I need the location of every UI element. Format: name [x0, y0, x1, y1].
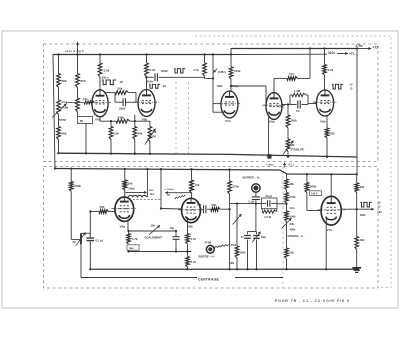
potentiometer P2	[71, 238, 80, 240]
svg-text:4.7k: 4.7k	[328, 68, 334, 72]
svg-text:CENTRAGE: CENTRAGE	[198, 278, 219, 282]
svg-text:1.2M: 1.2M	[294, 89, 301, 93]
resistor R3 820	[77, 55, 79, 74]
box thermistor	[127, 245, 139, 250]
svg-text:68k: 68k	[62, 79, 67, 83]
svg-text:V9a: V9a	[269, 120, 275, 124]
svg-text:T8βC: T8βC	[129, 248, 135, 250]
svg-text:400k: 400k	[290, 228, 296, 232]
tube V7a triode	[221, 91, 238, 118]
arrow vers M1	[125, 191, 146, 193]
resistor squiggle H2	[175, 195, 186, 199]
svg-text:68k: 68k	[62, 132, 67, 136]
svg-text:(C4B1): (C4B1)	[218, 71, 226, 74]
resistor chain PSU 275k	[286, 190, 288, 193]
svg-text:100 V: 100 V	[311, 192, 318, 195]
svg-text:20k: 20k	[290, 222, 295, 226]
svg-text:310v: 310v	[328, 51, 335, 55]
arrow +T1	[337, 53, 348, 55]
resistor R8 2.7k anode load V6b	[146, 55, 148, 64]
svg-text:V9b: V9b	[320, 120, 326, 124]
wire V9a cathode to ground blob	[268, 115, 270, 156]
svg-text:1.5k: 1.5k	[83, 97, 89, 101]
resistor R19 56k	[134, 121, 136, 126]
svg-text:200v: 200v	[147, 80, 154, 84]
wire input node	[230, 203, 262, 205]
svg-text:56k: 56k	[138, 132, 143, 136]
ground symbol	[352, 267, 361, 269]
resistor R1 68k	[58, 55, 60, 74]
resistor R5 3.5k anode load V6a	[99, 55, 101, 64]
wire HT bus lower	[55, 169, 357, 175]
resistor R27 500k	[236, 204, 238, 246]
wire ground bus lower	[91, 268, 356, 270]
capacitor C3	[290, 104, 297, 106]
connector ENTREE	[252, 184, 260, 192]
svg-text:39k: 39k	[360, 185, 365, 189]
outer dashed margin line	[195, 36, 391, 288]
svg-text:(10w): (10w)	[129, 187, 135, 190]
wire HT bus jog	[230, 49, 232, 55]
dashed link line	[133, 199, 162, 201]
resistor R22 10k anode V8a	[124, 169, 126, 180]
resistor R24 4.7k cathode	[127, 230, 129, 232]
tube V8b output	[182, 198, 201, 222]
capacitor C5 25u and resistor 560 on V8b	[200, 208, 202, 210]
svg-text:SORTIE - H -: SORTIE - H -	[198, 255, 215, 259]
svg-text:4,7 M: 4,7 M	[264, 215, 272, 219]
wire choke to rail	[146, 196, 149, 198]
resistor R31 39k lower right rail	[355, 237, 359, 250]
potentiometer 20k vitesse	[282, 218, 292, 229]
wire grid V6a from pot	[66, 102, 84, 104]
svg-text:820: 820	[81, 79, 86, 83]
tube V6b triode	[138, 90, 155, 117]
svg-text:80 ~: 80 ~	[80, 119, 86, 123]
node ground bus junctions lower	[89, 268, 91, 270]
svg-text:43µ: 43µ	[170, 226, 175, 230]
svg-text:100k: 100k	[231, 244, 237, 247]
resistor R25 2.7k	[187, 252, 189, 257]
resistor R26 100k output	[214, 244, 229, 247]
svg-text:0.1 µf: 0.1 µf	[96, 239, 103, 243]
resistor chain PSU 39k	[286, 174, 288, 179]
dashed partition lower box	[282, 167, 284, 289]
wire to PSU rail	[277, 203, 287, 205]
svg-text:a 3 030w: a 3 030w	[165, 189, 174, 191]
box 100V	[310, 191, 322, 196]
ground tie point	[267, 154, 271, 158]
tube V8a output	[115, 197, 134, 221]
resistor R18 10k	[110, 121, 112, 126]
wire cathode V7b	[325, 218, 327, 270]
svg-text:180v: 180v	[360, 213, 366, 217]
node coupling junction	[145, 76, 147, 78]
svg-text:2.7k: 2.7k	[191, 260, 197, 264]
svg-text:100k: 100k	[217, 84, 223, 88]
resistor R11 100k anode load V7a	[230, 55, 232, 67]
potentiometer P6 1M	[149, 121, 151, 126]
svg-text:1&2: 1&2	[377, 211, 382, 214]
tube V7b	[321, 196, 341, 225]
wire coupling V7a anode to V9a grid	[230, 85, 232, 87]
svg-text:C3: C3	[296, 109, 300, 113]
svg-text:3.5k: 3.5k	[104, 69, 110, 73]
svg-text:540k: 540k	[118, 115, 125, 119]
tube V9a triode	[266, 93, 282, 120]
svg-text:10k: 10k	[195, 183, 200, 187]
svg-text:560k: 560k	[310, 185, 317, 189]
svg-text:275k: 275k	[290, 195, 296, 199]
wire left rail	[53, 55, 55, 169]
wire grid rail V8b	[160, 169, 162, 208]
resistor R29 560k grid V7b	[306, 174, 308, 182]
svg-text:vers A fig 5: vers A fig 5	[65, 49, 84, 53]
svg-text:STABILITE: STABILITE	[291, 148, 305, 152]
resistor R12 100	[274, 77, 287, 79]
svg-text:100: 100	[289, 72, 294, 76]
svg-text:P6: P6	[153, 135, 157, 139]
svg-text:500k: 500k	[240, 250, 247, 254]
svg-text:10k: 10k	[128, 182, 133, 186]
tube V9b triode	[316, 90, 333, 116]
wire grid V7b	[306, 193, 308, 211]
svg-text:10Ω: 10Ω	[230, 262, 235, 265]
resistor R23 10k anode V8b	[191, 169, 193, 180]
resistor R30 39k upper right rail	[356, 174, 358, 183]
wire C4B1 feed	[212, 55, 214, 113]
resistor R20 560k input rail	[70, 169, 72, 182]
wire anode V7b	[330, 174, 332, 196]
svg-text:10k: 10k	[114, 132, 119, 136]
node lower bus junctions	[70, 167, 72, 169]
potentiometer P1 100k	[58, 88, 60, 101]
svg-text:POUR TR , C1 , C2 VOIR FIG 5: POUR TR , C1 , C2 VOIR FIG 5	[275, 299, 350, 303]
arrow vers A	[77, 42, 79, 55]
svg-text:270k: 270k	[233, 185, 240, 189]
capacitor C9 47	[255, 204, 257, 232]
svg-text:100k: 100k	[290, 215, 296, 219]
svg-text:1M: 1M	[153, 130, 158, 134]
resistor R16 180 cathode V9b	[326, 116, 328, 128]
wire grid feed V7a	[205, 78, 214, 80]
svg-text:+T2: +T2	[373, 45, 379, 49]
capacitor C7 input	[255, 192, 257, 196]
capacitor C4 0.1uF	[89, 212, 91, 238]
svg-text:560: 560	[212, 203, 217, 207]
svg-text:V7a: V7a	[327, 228, 333, 232]
svg-text:2.7k: 2.7k	[150, 68, 156, 72]
inductor L1 screen choke	[128, 195, 146, 196]
svg-text:10k: 10k	[151, 223, 156, 227]
tube V6a triode	[92, 90, 108, 117]
wire V7b output	[341, 208, 374, 210]
svg-text:100pF: 100pF	[161, 69, 169, 73]
wire anode V6b	[146, 77, 148, 90]
svg-text:22µF: 22µF	[119, 107, 126, 111]
resistor R28 270k entree	[229, 170, 231, 182]
capacitor C6 43u	[175, 230, 177, 232]
resistor chain PSU 22k	[286, 222, 288, 249]
svg-text:V7a: V7a	[225, 119, 231, 123]
resistor R6 grid stopper 1.5k	[84, 101, 95, 104]
waveform annotation output	[361, 202, 372, 207]
svg-text:200 v: 200 v	[102, 76, 110, 80]
svg-text:M1: M1	[150, 193, 154, 196]
svg-text:560k: 560k	[75, 184, 82, 188]
svg-text:V8a: V8a	[120, 225, 126, 229]
svg-text:+T1: +T1	[349, 52, 355, 56]
wire V9a anode loop	[273, 78, 275, 92]
wire interstage cathode link	[99, 117, 101, 121]
svg-text:1M: 1M	[291, 143, 296, 147]
wire cathode V8b down	[187, 217, 189, 234]
potentiometer balance 10k	[149, 225, 160, 235]
svg-text:25µ: 25µ	[197, 203, 202, 206]
svg-text:56k: 56k	[118, 87, 123, 91]
svg-text:40µl: 40µl	[261, 235, 266, 239]
arrow +T2	[358, 48, 371, 50]
wire bus 310v	[231, 53, 327, 55]
resistor R13 1.2M	[282, 104, 290, 106]
resistor R2 68k	[58, 115, 60, 127]
resistor R7 56k feedback	[106, 92, 116, 94]
resistor R21 560 grid stopper V8a	[89, 210, 91, 212]
svg-text:275v: 275v	[356, 44, 363, 48]
capacitor C10 40uF trimmer	[256, 232, 258, 235]
capacitor C1 22uF	[114, 93, 116, 103]
node ground bus junctions	[57, 152, 59, 154]
svg-text:ENTREE - H -: ENTREE - H -	[243, 176, 261, 180]
wire ground bus upper	[59, 153, 358, 157]
resistor 4.7k cathode V8b	[186, 234, 190, 245]
capacitor C2 coupling 100pF	[147, 76, 154, 78]
box 80Hz	[78, 117, 93, 124]
svg-text:(70µ): (70µ)	[278, 105, 284, 108]
svg-text:4.7k: 4.7k	[193, 68, 199, 72]
waveform annotation coupling	[174, 69, 185, 73]
svg-text:reglage: reglage	[58, 120, 67, 122]
svg-text:2Ω: 2Ω	[163, 85, 166, 88]
dashed screen partition lines upper box	[175, 82, 177, 154]
wire to V9b grid	[308, 103, 316, 105]
svg-text:39k: 39k	[360, 238, 365, 242]
svg-text:100k: 100k	[234, 69, 241, 73]
svg-text:CAL.: CAL.	[290, 207, 296, 210]
dashed enclosure upper box	[44, 44, 379, 162]
svg-text:4.7k: 4.7k	[132, 237, 138, 241]
svg-text:2Ω: 2Ω	[120, 81, 123, 84]
svg-text:VITESSE - H -: VITESSE - H -	[288, 234, 305, 238]
resistor R9 24k	[204, 55, 206, 64]
potentiometer 1M STABILITE	[287, 128, 289, 139]
wire to 50Hz box	[77, 112, 79, 117]
wire HT rail right vertical	[356, 49, 358, 175]
node bus junctions	[57, 53, 59, 55]
potentiometer 10 ohm centrage	[233, 214, 242, 225]
svg-text:4.7k: 4.7k	[191, 237, 197, 241]
wire HT bus upper right 275v	[231, 48, 358, 50]
resistor R17 540k	[116, 119, 130, 123]
wire cathode V8a network	[127, 220, 129, 232]
waveform annotation V9b	[332, 84, 343, 89]
svg-text:( vers: ( vers	[267, 163, 274, 167]
svg-text:180: 180	[330, 132, 335, 136]
svg-text:560: 560	[100, 205, 105, 209]
wire cathode common	[129, 251, 192, 253]
svg-text:22k: 22k	[290, 251, 295, 255]
dashed enclosure lower box	[44, 167, 379, 289]
capacitor C8 20uF boxed	[262, 198, 278, 209]
svg-text:+T.1 ): +T.1 )	[288, 163, 295, 167]
svg-text:P1488: P1488	[205, 241, 212, 244]
arrow H2	[165, 192, 191, 194]
wire HT bus upper left	[53, 54, 231, 56]
resistor R4 56k	[77, 88, 79, 99]
svg-text:EGALEMENT: EGALEMENT	[145, 235, 163, 239]
wire cathode V6a to bus	[85, 124, 87, 154]
svg-text:39k: 39k	[290, 182, 295, 186]
resistor chain PSU 100k	[286, 204, 288, 211]
svg-text:vers: vers	[149, 190, 154, 192]
wire feedback line	[81, 277, 197, 279]
resistor 4.7M parallel	[261, 209, 263, 212]
resistor R15 4.7k anode V9b	[324, 49, 326, 65]
resistor R14 560k stability	[287, 103, 289, 105]
svg-text:560k: 560k	[291, 119, 298, 123]
svg-text:20 µf: 20 µf	[266, 194, 272, 198]
